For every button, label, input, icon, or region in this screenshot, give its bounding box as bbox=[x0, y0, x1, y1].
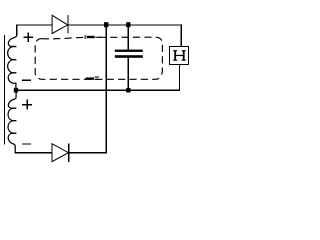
arrow current direction bottom bbox=[86, 77, 99, 81]
inductor upper winding loop tails bbox=[12, 47, 16, 73]
wire top rail bbox=[16, 24, 181, 26]
wire capacitor upper stem bbox=[127, 25, 129, 50]
inductor upper secondary winding bbox=[8, 34, 17, 88]
label minus lower winding bbox=[22, 143, 31, 145]
wire right rail to load top bbox=[180, 24, 182, 46]
node center tap junction dot bbox=[14, 88, 18, 93]
diode D2 cathode bar bbox=[68, 143, 70, 162]
wire load bottom drop bbox=[178, 65, 180, 91]
diode D1 triangle bbox=[52, 15, 68, 33]
diode D2 triangle bbox=[52, 144, 68, 162]
inductor lower winding loop tails bbox=[12, 108, 16, 133]
capacitor plate bottom bbox=[115, 55, 143, 58]
label plus lower winding bbox=[22, 100, 32, 110]
wire dashed current-path loop bbox=[35, 37, 162, 79]
inductor lower secondary winding bbox=[8, 92, 16, 152]
diode D1 cathode bar bbox=[67, 15, 69, 34]
label plus upper winding bbox=[24, 33, 33, 42]
node junction dot C (mid rail / capacitor) bbox=[126, 88, 130, 93]
wire center-tap middle rail bbox=[18, 89, 179, 91]
transformer core bbox=[3, 35, 5, 145]
load label H (drawn serif glyph) bbox=[173, 50, 186, 61]
capacitor plate top bbox=[115, 50, 143, 52]
wire left drop to upper coil bbox=[16, 24, 18, 34]
node junction dot B (top rail / capacitor) bbox=[126, 22, 130, 27]
label minus upper winding bbox=[22, 79, 31, 81]
load H box bbox=[170, 47, 189, 65]
wire capacitor lower stem bbox=[127, 58, 129, 90]
wire bottom rail bbox=[15, 152, 107, 154]
node junction dot A (top rail / lower loop) bbox=[104, 22, 108, 27]
wire right vertical of lower loop bbox=[105, 25, 107, 153]
arrow current direction top bbox=[84, 36, 101, 39]
